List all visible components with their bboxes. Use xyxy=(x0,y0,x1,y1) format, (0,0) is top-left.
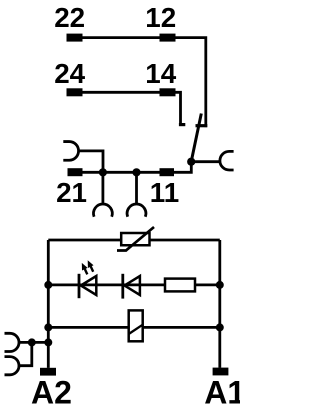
svg-text:11: 11 xyxy=(150,177,179,208)
svg-text:12: 12 xyxy=(145,2,176,33)
svg-text:21: 21 xyxy=(56,177,87,208)
svg-text:A2: A2 xyxy=(31,375,72,408)
svg-text:22: 22 xyxy=(54,2,85,33)
svg-text:24: 24 xyxy=(54,58,85,89)
svg-text:14: 14 xyxy=(145,58,176,89)
svg-text:A1: A1 xyxy=(204,375,240,408)
